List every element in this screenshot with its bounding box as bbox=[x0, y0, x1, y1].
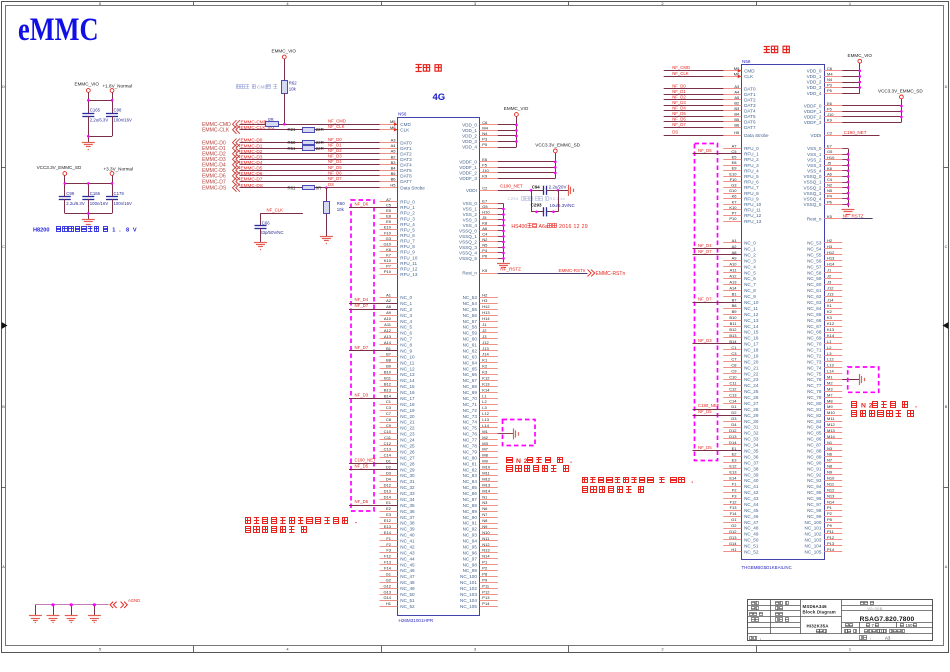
svg-text:Rest_n: Rest_n bbox=[462, 271, 477, 276]
wire NF_D6 into N58 bbox=[664, 121, 742, 123]
svg-text:NC_81: NC_81 bbox=[807, 407, 822, 412]
svg-text:NC_69: NC_69 bbox=[807, 336, 822, 341]
svg-text:C190_NET: C190_NET bbox=[844, 130, 867, 135]
svg-text:M14: M14 bbox=[482, 488, 491, 493]
svg-text:A3: A3 bbox=[734, 84, 740, 89]
svg-text:R64: R64 bbox=[268, 126, 275, 130]
svg-text:NC_43: NC_43 bbox=[744, 496, 759, 501]
svg-text:E2: E2 bbox=[386, 506, 392, 511]
svg-text:C3: C3 bbox=[386, 405, 392, 410]
svg-text:N10: N10 bbox=[827, 476, 835, 481]
wire VDDI to C94 node bbox=[498, 190, 544, 192]
svg-text:NC_44: NC_44 bbox=[744, 502, 759, 507]
ground symbol AGND 2 bbox=[47, 615, 60, 617]
wire EMMC-RSTn bbox=[498, 273, 588, 275]
pin stub N58 K5 bbox=[824, 218, 842, 220]
svg-text:L13: L13 bbox=[827, 363, 834, 368]
svg-text:F2: F2 bbox=[386, 542, 391, 547]
svg-text:NC_69: NC_69 bbox=[463, 390, 478, 395]
svg-text:C: C bbox=[945, 245, 948, 249]
svg-text:N7: N7 bbox=[482, 512, 488, 517]
svg-text:NC_16: NC_16 bbox=[400, 390, 415, 395]
svg-text:E5: E5 bbox=[386, 208, 392, 213]
svg-text:B10: B10 bbox=[384, 370, 392, 375]
svg-text:B6: B6 bbox=[734, 122, 740, 127]
svg-text:L2: L2 bbox=[482, 399, 487, 404]
svg-text:B14: B14 bbox=[384, 393, 392, 398]
svg-text:8: 8 bbox=[126, 228, 129, 234]
svg-text:150: 150 bbox=[906, 623, 914, 628]
svg-text:DAT1: DAT1 bbox=[744, 92, 756, 97]
svg-text:NC_65: NC_65 bbox=[807, 312, 822, 317]
svg-text:RFU_10: RFU_10 bbox=[744, 202, 762, 207]
svg-text:RFU_11: RFU_11 bbox=[744, 208, 761, 213]
svg-text:2.2u/6.3V: 2.2u/6.3V bbox=[66, 201, 85, 206]
wire EMMC_VIO horizontal tie bbox=[88, 100, 112, 102]
svg-text:NC_68: NC_68 bbox=[463, 384, 478, 389]
svg-text:B3: B3 bbox=[391, 160, 397, 165]
svg-text:NC_67: NC_67 bbox=[463, 378, 478, 383]
svg-text:A4: A4 bbox=[391, 143, 397, 148]
svg-text:NC_105: NC_105 bbox=[460, 604, 477, 609]
svg-text:NC_17: NC_17 bbox=[400, 396, 415, 401]
svg-text:NC_28: NC_28 bbox=[400, 461, 415, 466]
junction dots EMMC_VIO rail N56 bbox=[515, 124, 518, 127]
svg-text:NC_43: NC_43 bbox=[400, 550, 415, 555]
svg-text:H8200: H8200 bbox=[33, 228, 50, 234]
svg-text:NC_74: NC_74 bbox=[463, 420, 478, 425]
svg-text:NC_57: NC_57 bbox=[463, 319, 478, 324]
svg-text:NF_D5: NF_D5 bbox=[698, 445, 712, 450]
svg-text:P10: P10 bbox=[729, 216, 737, 221]
svg-text:DAT6: DAT6 bbox=[744, 120, 756, 125]
svg-text:M13: M13 bbox=[827, 428, 836, 433]
svg-text:P4: P4 bbox=[482, 248, 488, 253]
port chevron EMMC-RSTn bbox=[588, 270, 592, 277]
wire N58 Rest_n out bbox=[842, 218, 872, 220]
wire EMMC-D7 row bbox=[240, 181, 398, 183]
title cell stage bbox=[846, 624, 849, 627]
svg-text:D1: D1 bbox=[386, 459, 392, 464]
svg-text:NC_86: NC_86 bbox=[807, 437, 822, 442]
wire C190_NET to N58 NC pin bbox=[693, 409, 742, 411]
svg-text:C5: C5 bbox=[386, 202, 392, 207]
pin stub N58 M6 bbox=[723, 76, 741, 78]
svg-text:A14: A14 bbox=[729, 285, 737, 290]
dashed highlight box N58 NC bus bbox=[695, 144, 718, 461]
wire NF_D6 to N56 NC pin bbox=[349, 207, 398, 209]
svg-text:NC_18: NC_18 bbox=[400, 402, 415, 407]
svg-text:NC_87: NC_87 bbox=[807, 443, 822, 448]
pin stubs N56 VDD C6 M4 N4 P3 P5 bbox=[480, 124, 498, 126]
svg-text:G5: G5 bbox=[482, 204, 488, 209]
pin stub N56 A5 bbox=[380, 153, 398, 155]
svg-text:2.2u/6.3V: 2.2u/6.3V bbox=[90, 118, 109, 123]
svg-text:NC_49: NC_49 bbox=[400, 586, 415, 591]
svg-text:A6: A6 bbox=[827, 172, 833, 177]
svg-text:N12: N12 bbox=[482, 542, 490, 547]
svg-text:VSS_3: VSS_3 bbox=[463, 218, 478, 223]
svg-text:VSSQ_3: VSSQ_3 bbox=[459, 245, 477, 250]
svg-text:CLK: CLK bbox=[400, 127, 410, 132]
svg-text:VSS_0: VSS_0 bbox=[463, 201, 478, 206]
svg-text:NC_2: NC_2 bbox=[744, 252, 756, 257]
svg-text:.: . bbox=[533, 197, 534, 201]
svg-text:N 2: N 2 bbox=[516, 458, 528, 465]
wire VCC3.3V vertical drops bbox=[64, 175, 66, 196]
svg-text:M9: M9 bbox=[482, 459, 488, 464]
svg-text:NC_94: NC_94 bbox=[807, 484, 822, 489]
wire NF_D7 to N56 NC pin bbox=[349, 309, 398, 311]
svg-text:NC_45: NC_45 bbox=[400, 562, 415, 567]
power terminal circle EMMC_VIO N56 bbox=[515, 113, 519, 117]
svg-text:C1: C1 bbox=[386, 399, 392, 404]
svg-text:DAT4: DAT4 bbox=[744, 109, 756, 114]
wire VSS ground bus N58 bbox=[848, 149, 850, 208]
svg-text:G13: G13 bbox=[729, 535, 737, 540]
svg-text:RFU_3: RFU_3 bbox=[744, 163, 759, 168]
ground symbol AGND 1 bbox=[29, 615, 42, 617]
svg-text:N6: N6 bbox=[482, 506, 488, 511]
svg-text:E1: E1 bbox=[386, 500, 392, 505]
svg-text:E5: E5 bbox=[732, 155, 738, 160]
svg-text:NC_46: NC_46 bbox=[400, 568, 415, 573]
wire EMMC-D2 row bbox=[240, 153, 398, 155]
svg-text:NC_12: NC_12 bbox=[400, 366, 415, 371]
svg-text:NC_13: NC_13 bbox=[744, 318, 759, 323]
wire NF_D5 to N56 NC pin bbox=[349, 469, 398, 471]
svg-text:NC_62: NC_62 bbox=[463, 348, 478, 353]
port chevrons AGND bbox=[110, 602, 113, 608]
wire EMMC-CMD row bbox=[240, 124, 398, 126]
svg-text:NC_24: NC_24 bbox=[744, 383, 759, 388]
svg-text:C9: C9 bbox=[386, 423, 392, 428]
annotation these nets only for routing (middle) bbox=[583, 478, 588, 483]
svg-text:NC_67: NC_67 bbox=[807, 324, 822, 329]
svg-text:NC_93: NC_93 bbox=[463, 533, 478, 538]
svg-text:RFU_3: RFU_3 bbox=[400, 216, 415, 221]
wire cap bottoms to ground rail 3.3V bbox=[64, 199, 66, 213]
svg-text:N56: N56 bbox=[398, 111, 407, 116]
svg-text:NC_75: NC_75 bbox=[807, 371, 822, 376]
svg-text:VSS_3: VSS_3 bbox=[807, 163, 822, 168]
svg-text:NC_97: NC_97 bbox=[807, 502, 822, 507]
svg-text:NC_21: NC_21 bbox=[400, 420, 415, 425]
wire NF_D5 to N58 NC pin bbox=[693, 415, 742, 417]
svg-text:NC_20: NC_20 bbox=[400, 414, 415, 419]
svg-text:N3: N3 bbox=[482, 500, 488, 505]
wire NF_D5 into N58 bbox=[664, 116, 742, 118]
pin stub N58 A5 bbox=[723, 99, 741, 101]
IC N56 eMMC 4G body bbox=[398, 118, 480, 616]
svg-text:NC_85: NC_85 bbox=[807, 431, 822, 436]
svg-text:RFU_5: RFU_5 bbox=[400, 227, 415, 232]
svg-text:MSD6A346: MSD6A346 bbox=[803, 604, 828, 609]
svg-text:NC_11: NC_11 bbox=[400, 360, 414, 365]
svg-text:NF_CLK: NF_CLK bbox=[672, 71, 689, 76]
svg-text:EMMC_VIO: EMMC_VIO bbox=[75, 82, 100, 87]
svg-text:B13: B13 bbox=[384, 387, 392, 392]
svg-text:P2: P2 bbox=[482, 566, 488, 571]
title cell sheet size A3 bbox=[860, 636, 863, 640]
svg-text:N2: N2 bbox=[827, 183, 833, 188]
svg-text:N13: N13 bbox=[482, 548, 490, 553]
svg-text:NC_105: NC_105 bbox=[805, 549, 822, 554]
annotation for N2 routing note (N56 right) bbox=[507, 458, 513, 463]
port chevron EMMC-D5 bbox=[233, 166, 237, 174]
svg-text:NC_79: NC_79 bbox=[463, 449, 478, 454]
svg-text:B2: B2 bbox=[391, 154, 397, 159]
svg-text:K3: K3 bbox=[482, 370, 488, 375]
svg-text:NF_RSTZ: NF_RSTZ bbox=[500, 267, 521, 272]
svg-text:P3: P3 bbox=[482, 136, 488, 141]
svg-text:Rest_n: Rest_n bbox=[807, 217, 822, 222]
junction dot ground rail bbox=[87, 135, 90, 138]
svg-text:DAT7: DAT7 bbox=[744, 125, 756, 130]
svg-text:VSSQ_3: VSSQ_3 bbox=[804, 191, 822, 196]
svg-text:H12: H12 bbox=[827, 250, 835, 255]
svg-text:M4: M4 bbox=[482, 125, 488, 130]
wire C293 branch left bbox=[531, 190, 533, 212]
svg-text:F1: F1 bbox=[386, 536, 391, 541]
svg-text:K9: K9 bbox=[827, 117, 833, 122]
svg-text:F5: F5 bbox=[482, 162, 487, 167]
isolated ground right of N58 M1 bbox=[859, 374, 861, 385]
svg-text:VSS_4: VSS_4 bbox=[807, 169, 822, 174]
svg-text:J14: J14 bbox=[482, 352, 489, 357]
svg-text:K12: K12 bbox=[827, 321, 835, 326]
svg-text:VDDF_3: VDDF_3 bbox=[459, 176, 477, 181]
svg-text:E9: E9 bbox=[732, 166, 738, 171]
svg-text:C14: C14 bbox=[729, 398, 737, 403]
svg-text:R61: R61 bbox=[288, 185, 296, 190]
svg-text:K10: K10 bbox=[729, 205, 737, 210]
svg-text:NC_48: NC_48 bbox=[400, 580, 415, 585]
pin stubs N58 VDDF E6 F5 J10 K9 bbox=[824, 105, 842, 107]
svg-text:VDDI: VDDI bbox=[466, 188, 477, 193]
wire DS into N58 bbox=[664, 135, 742, 137]
svg-text:K2: K2 bbox=[482, 364, 488, 369]
svg-text:A3: A3 bbox=[391, 138, 397, 143]
svg-text:H2: H2 bbox=[482, 292, 488, 297]
svg-text:E8: E8 bbox=[732, 160, 738, 165]
svg-text:NC_100: NC_100 bbox=[460, 574, 477, 579]
svg-text:R2.2 xx: R2.2 xx bbox=[550, 196, 566, 201]
svg-text:C12: C12 bbox=[729, 386, 737, 391]
svg-text:E3: E3 bbox=[732, 458, 738, 463]
svg-text:NC_84: NC_84 bbox=[463, 479, 478, 484]
svg-text:NC_14: NC_14 bbox=[400, 378, 415, 383]
svg-text:DAT3: DAT3 bbox=[400, 157, 412, 162]
svg-text:NF_D6: NF_D6 bbox=[355, 201, 369, 206]
wire NF_D4 to N56 NC pin bbox=[349, 303, 398, 305]
svg-text:VSSQ_1: VSSQ_1 bbox=[804, 180, 822, 185]
capacitor C179 bbox=[106, 196, 118, 198]
svg-text:NC_80: NC_80 bbox=[807, 401, 822, 406]
svg-text:NC_88: NC_88 bbox=[463, 503, 478, 508]
wire NF_D2 into N58 bbox=[664, 99, 742, 101]
power terminal circle +3.3V_Normal bbox=[110, 172, 114, 176]
svg-text:P12: P12 bbox=[482, 589, 490, 594]
frame column ticks bottom bbox=[193, 646, 195, 653]
svg-text:NC_39: NC_39 bbox=[400, 527, 415, 532]
svg-text:DAT2: DAT2 bbox=[400, 151, 412, 156]
wire NF_CLK into N58 bbox=[664, 76, 742, 78]
svg-text:J12: J12 bbox=[482, 340, 489, 345]
svg-text:RFU_2: RFU_2 bbox=[744, 157, 759, 162]
svg-text:NC_73: NC_73 bbox=[807, 359, 822, 364]
svg-text:M2: M2 bbox=[482, 435, 488, 440]
svg-text:D3: D3 bbox=[386, 471, 392, 476]
svg-text:G5: G5 bbox=[827, 149, 833, 154]
IC N58 eMMC big package body bbox=[742, 65, 825, 560]
resistor R61 0R (DS row) bbox=[303, 186, 315, 190]
svg-text:F10: F10 bbox=[384, 230, 392, 235]
svg-text:NC_12: NC_12 bbox=[744, 312, 759, 317]
junction dots VCC3.3V rail bbox=[64, 182, 67, 185]
svg-text:NC_0: NC_0 bbox=[744, 241, 756, 246]
svg-text:K5: K5 bbox=[827, 214, 833, 219]
pin stub N58 A3 bbox=[723, 88, 741, 90]
junction dots EMMC_VIO rail bbox=[87, 99, 90, 102]
svg-text:NC_104: NC_104 bbox=[805, 544, 822, 549]
svg-text:NC_57: NC_57 bbox=[807, 264, 822, 269]
svg-text:H5: H5 bbox=[390, 183, 396, 188]
svg-text:NF_D7: NF_D7 bbox=[355, 345, 369, 350]
svg-text:THGBMBG5D1KBAILINC: THGBMBG5D1KBAILINC bbox=[742, 565, 792, 570]
svg-text:NC_63: NC_63 bbox=[807, 300, 822, 305]
svg-text:NC_99: NC_99 bbox=[807, 514, 822, 519]
svg-text:VSSQ_4: VSSQ_4 bbox=[459, 251, 477, 256]
ground symbol AGND 3 bbox=[65, 615, 78, 617]
svg-text:K1: K1 bbox=[827, 303, 833, 308]
svg-text:A5: A5 bbox=[391, 149, 397, 154]
svg-text:NC_29: NC_29 bbox=[744, 413, 759, 418]
svg-text:C66: C66 bbox=[262, 220, 270, 225]
svg-text:R62: R62 bbox=[289, 81, 297, 86]
svg-text:RFU_4: RFU_4 bbox=[744, 168, 759, 173]
resistor R50 22R (D0 row) bbox=[303, 141, 315, 145]
capacitor C165 bbox=[82, 113, 94, 115]
svg-text:NC_24: NC_24 bbox=[400, 438, 415, 443]
svg-text:VDD_0: VDD_0 bbox=[807, 69, 822, 74]
svg-text:A12: A12 bbox=[384, 328, 392, 333]
svg-text:K5: K5 bbox=[482, 268, 488, 273]
svg-text:C165: C165 bbox=[90, 108, 101, 113]
power terminal circle VCC3.3V_EMMC_SD bbox=[63, 172, 67, 176]
svg-text:N10: N10 bbox=[482, 530, 490, 535]
junction dots VCC3.3V rail N58 bbox=[900, 105, 903, 108]
svg-text:G12: G12 bbox=[383, 583, 391, 588]
svg-text:NC_39: NC_39 bbox=[744, 472, 759, 477]
pin stub N58 H5 bbox=[723, 135, 741, 137]
svg-text:RFU_5: RFU_5 bbox=[744, 174, 759, 179]
svg-text:NC_82: NC_82 bbox=[807, 413, 822, 418]
svg-text:H3: H3 bbox=[827, 244, 833, 249]
svg-text:VDD_4: VDD_4 bbox=[807, 91, 822, 96]
svg-text:E14: E14 bbox=[729, 476, 737, 481]
svg-text:A10: A10 bbox=[729, 262, 737, 267]
svg-text:E10: E10 bbox=[729, 171, 737, 176]
svg-text:B9: B9 bbox=[732, 309, 738, 314]
svg-text:NF_D3: NF_D3 bbox=[328, 154, 342, 159]
svg-text:NC_44: NC_44 bbox=[400, 556, 415, 561]
svg-text:NC_92: NC_92 bbox=[807, 472, 822, 477]
junction dot DS/R60 bbox=[325, 186, 328, 189]
pin stub N56 A3 bbox=[380, 142, 398, 144]
svg-text:P7: P7 bbox=[386, 264, 392, 269]
svg-text:NC_27: NC_27 bbox=[400, 455, 415, 460]
svg-text:M9: M9 bbox=[827, 404, 833, 409]
svg-text:NC_53: NC_53 bbox=[463, 295, 478, 300]
port chevron EMMC-D2 bbox=[233, 150, 237, 158]
svg-text:D1: D1 bbox=[731, 404, 737, 409]
svg-text:RFU_0: RFU_0 bbox=[400, 200, 415, 205]
svg-text:NC_45: NC_45 bbox=[744, 508, 759, 513]
wire C94 right to ground bbox=[547, 190, 569, 192]
wire NF_D5 to N56 NC pin bbox=[349, 505, 398, 507]
svg-text:R60: R60 bbox=[337, 201, 345, 206]
svg-text:C6: C6 bbox=[482, 120, 488, 125]
svg-text:NC_35: NC_35 bbox=[744, 449, 759, 454]
svg-text:NC_51: NC_51 bbox=[400, 598, 415, 603]
svg-text:NC_31: NC_31 bbox=[400, 479, 415, 484]
svg-text:100n/16V: 100n/16V bbox=[114, 118, 133, 123]
svg-text:M13: M13 bbox=[482, 482, 491, 487]
svg-text:A: A bbox=[945, 565, 948, 569]
svg-text:NC_92: NC_92 bbox=[463, 527, 478, 532]
svg-text:NC_7: NC_7 bbox=[744, 282, 756, 287]
svg-text:NC_3: NC_3 bbox=[744, 258, 756, 263]
caption small package (xiao feng zhuang) bbox=[416, 64, 422, 66]
svg-text:VCC3.3V_EMMC_SD: VCC3.3V_EMMC_SD bbox=[37, 165, 82, 170]
caption big package (da feng zhuang) bbox=[764, 46, 770, 48]
svg-text:VDDF_0: VDDF_0 bbox=[804, 104, 822, 109]
svg-text:P9: P9 bbox=[827, 523, 833, 528]
dashed highlight box N58 isolated ground bbox=[848, 367, 879, 392]
svg-text:C11: C11 bbox=[384, 435, 392, 440]
svg-text:NC_78: NC_78 bbox=[463, 444, 478, 449]
svg-text:NC_80: NC_80 bbox=[463, 455, 478, 460]
svg-text:H14: H14 bbox=[482, 316, 490, 321]
svg-text:EMMC-CLK: EMMC-CLK bbox=[202, 128, 230, 134]
svg-text:NC_86: NC_86 bbox=[463, 491, 478, 496]
svg-text:E6: E6 bbox=[827, 101, 833, 106]
svg-text:NC_38: NC_38 bbox=[744, 466, 759, 471]
svg-text:EMMC-RSTn: EMMC-RSTn bbox=[559, 268, 586, 273]
svg-text:G3: G3 bbox=[731, 183, 737, 188]
svg-text:N11: N11 bbox=[827, 481, 835, 486]
svg-text:M2: M2 bbox=[827, 380, 833, 385]
svg-text:NC_7: NC_7 bbox=[400, 337, 412, 342]
svg-text:B2: B2 bbox=[734, 100, 740, 105]
svg-text:Data Strobe: Data Strobe bbox=[400, 185, 425, 190]
svg-text:B12: B12 bbox=[384, 381, 392, 386]
resistor R51 22R (D1 row) bbox=[303, 146, 315, 151]
wire N58 VDDI stub out bbox=[842, 135, 879, 137]
svg-text:E12: E12 bbox=[729, 464, 737, 469]
pin stub N56 B3 bbox=[380, 164, 398, 166]
svg-text:NC_13: NC_13 bbox=[400, 372, 415, 377]
wire EMMC-D6 row bbox=[240, 175, 398, 177]
svg-text:M8: M8 bbox=[482, 453, 488, 458]
svg-text:NF_RSTZ: NF_RSTZ bbox=[843, 214, 864, 219]
svg-text:NC_89: NC_89 bbox=[807, 454, 822, 459]
title cell drawn-by name bbox=[776, 602, 779, 605]
wire NF_CLK down to C66 bbox=[260, 213, 262, 226]
pin stub N56 K5 bbox=[480, 273, 498, 275]
svg-text:VSSQ_2: VSSQ_2 bbox=[804, 185, 822, 190]
